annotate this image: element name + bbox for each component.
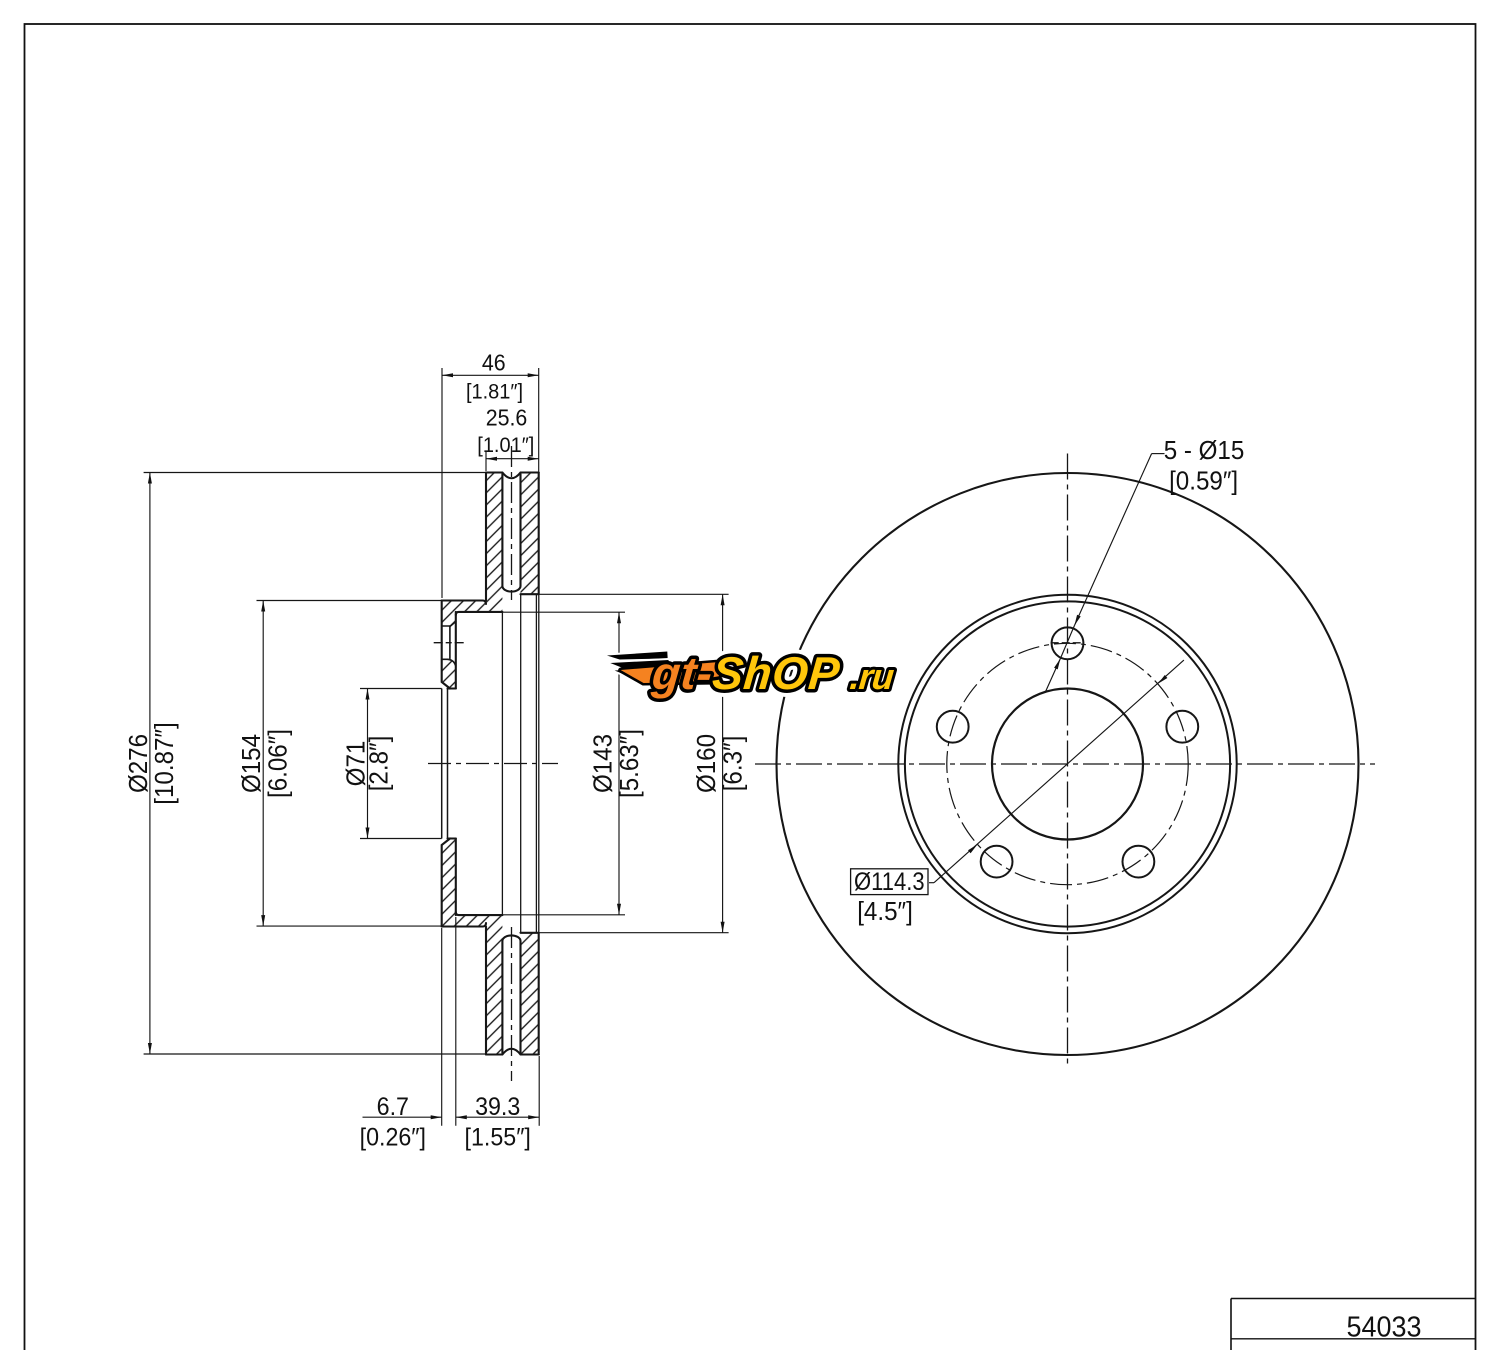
label D114.3 box [851, 869, 928, 895]
svg-text:[0.59″]: [0.59″] [1169, 467, 1238, 496]
leader 5-D15 second arrow [1045, 659, 1060, 693]
front view hat circles [898, 595, 1236, 933]
svg-text:Ø114.3: Ø114.3 [854, 868, 924, 896]
section: vent slot centerline bottom [511, 927, 513, 1081]
svg-text:gt-ShOP: gt-ShOP [649, 647, 842, 699]
section: hat web bottom [442, 923, 486, 927]
svg-text:[1.81″]: [1.81″] [466, 380, 523, 404]
leader 5-D15 line through hole [1060, 626, 1074, 659]
leader D114.3 diagonal [929, 882, 934, 884]
top bolt hole horizontal tick [1051, 642, 1084, 644]
dimension 46 top [441, 368, 443, 598]
section: horizontal centerline [428, 763, 558, 765]
svg-text:25.6: 25.6 [486, 405, 528, 431]
svg-text:Ø143: Ø143 [589, 734, 618, 793]
svg-text:6.7: 6.7 [377, 1093, 409, 1121]
section view: hatched areas [486, 473, 502, 612]
section: friction ring outline bottom [485, 927, 487, 1055]
svg-text:5 - Ø15: 5 - Ø15 [1164, 436, 1245, 465]
svg-text:46: 46 [482, 350, 506, 376]
front view bore circle [992, 689, 1143, 840]
dimension D143 [502, 611, 625, 613]
svg-text:.ru: .ru [848, 656, 896, 697]
svg-text:Ø154: Ø154 [237, 734, 266, 793]
front view outer circle [777, 473, 1359, 1055]
svg-text:[10.87″]: [10.87″] [150, 722, 179, 804]
svg-text:[0.26″]: [0.26″] [360, 1124, 426, 1152]
svg-text:39.3: 39.3 [475, 1093, 520, 1121]
dimension 25.6 [485, 452, 487, 471]
dimension D276 [144, 472, 486, 474]
dimension 6.7 bottom [441, 928, 443, 1126]
section: hat web top [442, 601, 486, 605]
section: bore silhouette lines [441, 689, 443, 839]
front view bolt circle (dash-dot) [947, 643, 1188, 884]
section: flange and bolt hole [442, 601, 450, 689]
svg-text:Ø276: Ø276 [124, 734, 153, 793]
leader 5-D15 [1152, 453, 1165, 455]
svg-text:[1.55″]: [1.55″] [465, 1124, 531, 1152]
section: inner silhouette verticals [501, 612, 503, 915]
front view bolt holes [1052, 627, 1084, 659]
dimension D154 [257, 600, 442, 602]
svg-text:[1.01″]: [1.01″] [477, 433, 534, 457]
dimension D160 [539, 593, 729, 595]
front view horizontal centerline [755, 763, 1375, 765]
section: bolt hole centerline tick [434, 642, 466, 644]
svg-text:[5.63″]: [5.63″] [615, 729, 644, 798]
svg-text:Ø160: Ø160 [692, 734, 721, 793]
svg-text:[6.3″]: [6.3″] [719, 736, 748, 792]
front view vertical centerline [1067, 454, 1069, 1068]
svg-text:[6.06″]: [6.06″] [264, 729, 293, 798]
section: friction ring outline top [485, 473, 487, 601]
section: flange bottom [442, 839, 450, 927]
svg-text:[2.8″]: [2.8″] [365, 736, 394, 792]
title block [1231, 1298, 1476, 1300]
section: vent slot centerline top [511, 446, 513, 600]
svg-text:[4.5″]: [4.5″] [857, 897, 913, 926]
dimension D71 [360, 688, 442, 690]
gt-shop.ru logo [603, 647, 896, 699]
svg-text:54033: 54033 [1346, 1311, 1421, 1343]
dimension 39.3 bottom [456, 1116, 539, 1118]
